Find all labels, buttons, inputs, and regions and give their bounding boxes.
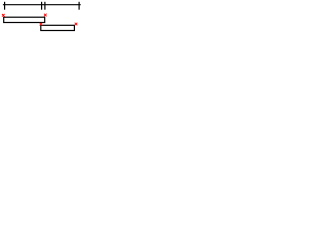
resistor R2 — [41, 25, 75, 30]
node: R2 pin 2 marker — [75, 23, 78, 26]
wire: horizontal bus — [3, 4, 81, 6]
node: R2 pin 1 marker — [40, 23, 43, 26]
resistor R1 — [4, 17, 45, 22]
wire: vertical stub 3 — [44, 2, 46, 10]
node: R1 pin 2 marker — [44, 14, 47, 17]
wire: vertical stub 4 — [78, 2, 80, 10]
node: R1 pin 1 marker — [2, 14, 5, 17]
wire: vertical stub 2 — [41, 2, 43, 10]
wire: vertical stub 1 — [4, 2, 6, 10]
